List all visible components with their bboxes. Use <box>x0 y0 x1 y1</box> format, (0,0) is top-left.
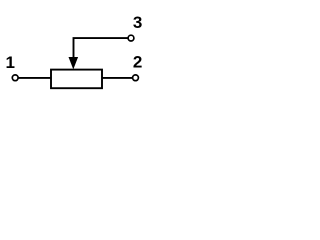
wire terminal 1 to body <box>16 77 51 79</box>
svg-text:2: 2 <box>133 53 142 72</box>
terminal 1 circle <box>12 75 18 81</box>
wire wiper from terminal 3 <box>74 38 130 58</box>
terminal 2 circle <box>133 75 139 81</box>
svg-text:3: 3 <box>133 13 142 32</box>
terminal 3 circle <box>128 35 134 41</box>
potentiometer body R1 <box>51 70 102 89</box>
wiper arrowhead <box>69 57 79 69</box>
svg-text:1: 1 <box>6 53 15 72</box>
wire body to terminal 2 <box>103 77 134 79</box>
